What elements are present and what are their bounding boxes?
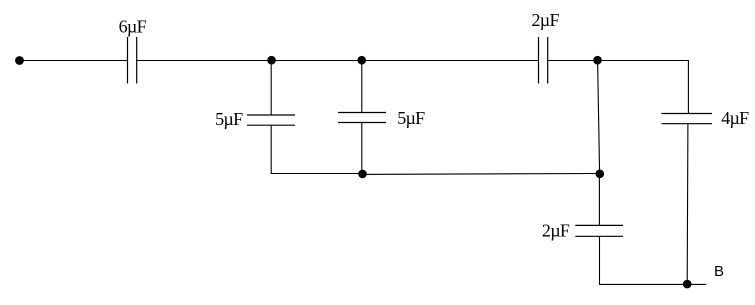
wire: C2 right plate to node N3 <box>548 60 597 62</box>
wire: node N2 down to C4 top plate <box>361 61 363 113</box>
node N2 junction dot <box>357 56 366 65</box>
svg-text:5µF: 5µF <box>215 109 243 129</box>
wire: C3 bottom plate down and across to node N4 <box>271 126 362 174</box>
node B junction dot <box>683 280 692 289</box>
wire: input terminal to capacitor C1 left plate <box>20 60 128 62</box>
svg-text:2µF: 2µF <box>542 221 570 241</box>
wire: C4 bottom plate down to node N4 <box>361 123 363 174</box>
wire: C5 bottom plate down and across to node B <box>600 237 688 285</box>
svg-text:5µF: 5µF <box>397 108 425 128</box>
wire: stub right of node B <box>687 283 706 285</box>
svg-text:4µF: 4µF <box>721 108 749 128</box>
svg-text:B: B <box>714 263 724 280</box>
wire: top bus node N1 to node N2 <box>272 60 362 62</box>
capacitor C3 5uF (left shunt) <box>247 115 295 125</box>
wire: node N3 down to node N5 (slightly sloped, renders grey) <box>598 61 600 174</box>
wire: node N5 down to C5 top plate <box>598 174 600 225</box>
svg-text:2µF: 2µF <box>532 10 560 30</box>
capacitor C6 4uF (right branch) <box>662 114 713 124</box>
node N1 junction dot <box>267 56 276 65</box>
node N4 junction dot <box>358 170 367 179</box>
capacitor C5 2uF (bottom branch) <box>575 225 623 236</box>
node N3 junction dot <box>593 56 602 65</box>
wire: right branch down to C6 top plate <box>687 61 689 114</box>
terminal dot A (left input) <box>15 56 24 65</box>
capacitor C1 6uF (series, horizontal run) <box>128 37 137 84</box>
wire: C6 bottom plate down to node B (slightly sloped, renders grey) <box>686 124 689 284</box>
node N5 junction dot <box>596 170 605 179</box>
wire: C1 right plate to node N1 <box>137 60 271 62</box>
svg-text:6µF: 6µF <box>119 17 147 37</box>
wire: node N3 to top-right corner <box>598 60 689 62</box>
wire: node N1 down to C3 top plate <box>270 61 272 115</box>
capacitor C2 2uF (series, top right) <box>539 37 548 84</box>
capacitor C4 5uF (right shunt) <box>338 113 386 123</box>
wire: node N2 to capacitor C2 left plate <box>362 60 538 62</box>
wire: node N4 to node N5 (slightly sloped, renders grey) <box>363 173 600 176</box>
